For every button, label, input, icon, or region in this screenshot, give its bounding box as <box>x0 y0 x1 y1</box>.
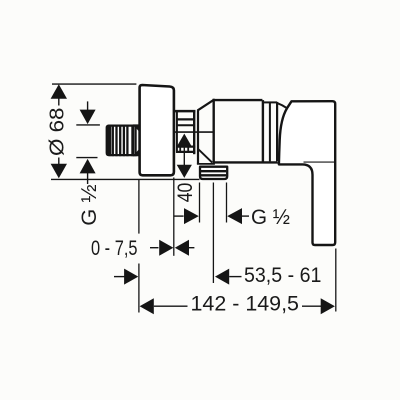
collar left edge <box>176 110 178 153</box>
svg-text:0 - 7,5: 0 - 7,5 <box>91 237 138 260</box>
collar bottom edge <box>176 151 195 153</box>
dim G1/2 right arrow left <box>227 208 242 224</box>
extension line outlet right edge <box>226 183 228 223</box>
dim Ø68 stem top <box>58 99 60 106</box>
dim Ø68 arrow down <box>51 164 67 179</box>
dim 53,5-61 stub right <box>229 276 241 278</box>
flange escutcheon plate Ø68 (side view) <box>140 85 174 175</box>
svg-text:G ½: G ½ <box>78 184 101 225</box>
handle lever outline <box>279 101 335 245</box>
collar ring line 3 <box>176 146 195 148</box>
dim G1/2 left stem top <box>87 101 89 112</box>
band ring line 1 <box>269 102 271 161</box>
cone bottom chamfer diagonal <box>198 149 212 162</box>
outlet shoulder line <box>197 163 215 165</box>
dim G1/2 right arrow right <box>184 208 199 224</box>
dim G1/2 left arrow down <box>80 110 96 125</box>
nipple chamfer wedge bottom <box>133 150 139 157</box>
collar ring line 2 <box>176 124 194 126</box>
dim G1/2 left tick bottom <box>76 157 97 159</box>
cone left edge <box>197 110 199 164</box>
body top edge <box>214 99 263 101</box>
dim G1/2 left tick top <box>76 124 100 126</box>
dim 0-7,5 arrow right <box>159 240 173 256</box>
dim G1/2 right stub left <box>174 215 184 217</box>
handle neck curve <box>277 103 288 109</box>
dim 40 arrow up <box>177 134 192 147</box>
dim 0-7,5 arrow left <box>175 240 189 256</box>
nipple thread bar 5 <box>126 125 128 157</box>
nipple thread bar 1 <box>112 125 114 157</box>
dim 142-149,5 arrow left <box>140 298 154 314</box>
dim 142-149,5 line left <box>154 305 188 307</box>
collar face line a <box>179 147 181 152</box>
body bottom edge <box>213 161 278 163</box>
dim G1/2 right stub right <box>242 215 249 217</box>
dim G1/2 left stem bottom <box>87 173 89 185</box>
dim 142-149,5 line right <box>302 305 321 307</box>
cone top diagonal <box>197 100 214 111</box>
threaded nipple body <box>107 126 136 156</box>
svg-text:53,5 - 61: 53,5 - 61 <box>244 264 321 287</box>
body right edge <box>262 100 264 162</box>
neck bottom step <box>277 162 279 164</box>
handle underside contour line <box>304 161 335 163</box>
dim 0-7,5 stub left <box>150 247 159 249</box>
nipple thread bar 4 <box>123 125 125 157</box>
extension line handle right end <box>335 249 337 312</box>
nipple thread bar 2 <box>115 125 117 157</box>
extension line flange top <box>52 83 136 85</box>
collar top edge <box>174 110 195 113</box>
collar right edge <box>193 110 195 154</box>
horizontal centerline of inlet axis <box>175 131 214 133</box>
band ring line 2 <box>276 102 278 161</box>
dim 53,5-61 arrow left <box>215 269 229 285</box>
dim 53,5-61 stub left <box>114 276 125 278</box>
body left edge <box>212 99 214 164</box>
svg-text:Ø 68: Ø 68 <box>46 108 68 157</box>
dim 0-7,5 stub right <box>189 247 194 249</box>
dim Ø68 stem bottom <box>58 158 60 165</box>
nipple end cap solid <box>107 125 111 157</box>
band top edge <box>262 101 277 103</box>
extension line flange right face down <box>173 178 175 256</box>
dim 53,5-61 arrow right <box>124 269 138 285</box>
extension line outlet left edge <box>199 183 201 223</box>
svg-text:142 - 149,5: 142 - 149,5 <box>191 292 300 315</box>
nipple chamfer wedge top <box>133 124 139 130</box>
dim G1/2 left arrow up <box>80 159 96 174</box>
dim 142-149,5 arrow right <box>321 298 335 314</box>
extension line bottom long <box>51 178 200 180</box>
dim Ø68 arrow up <box>51 84 67 99</box>
extension line flange left face upper segment <box>138 179 140 233</box>
svg-text:G ½: G ½ <box>251 205 290 229</box>
outlet thread stripe 2 <box>201 174 226 176</box>
extension line flange left face lower segment <box>138 264 140 313</box>
svg-text:40: 40 <box>174 183 197 203</box>
outlet thread stripe 1 <box>201 170 226 172</box>
nipple thread last band <box>131 125 134 157</box>
extension line outlet centerline <box>212 183 214 284</box>
dim 40 arrow down <box>177 165 192 178</box>
dim 40 stem <box>183 146 185 166</box>
collar face line b <box>187 147 189 152</box>
outlet threaded stub outline <box>200 167 227 179</box>
collar ring line 1 <box>176 118 194 120</box>
nipple thread bar 3 <box>119 125 121 157</box>
